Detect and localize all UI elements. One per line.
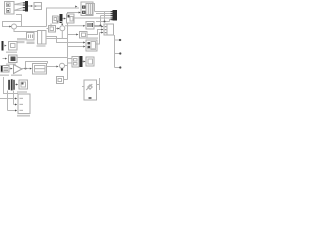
label under U13 xyxy=(87,48,96,49)
mux M2 xyxy=(60,14,63,23)
block U13 xyxy=(86,40,97,51)
wire B3 out xyxy=(47,66,57,68)
label above U13 xyxy=(86,37,98,38)
gain K1 triangle xyxy=(14,65,23,74)
arrowheads into BL xyxy=(15,98,17,112)
mux M3 xyxy=(113,10,118,21)
arrowhead into L2 xyxy=(5,58,7,60)
scope L2 xyxy=(9,55,18,63)
junction dot M3a xyxy=(104,21,106,23)
label of L2 xyxy=(6,64,16,65)
arrowhead into U2 xyxy=(31,5,33,7)
label of L1 xyxy=(6,52,17,53)
source block G0 xyxy=(1,66,9,73)
label under BL xyxy=(17,115,30,117)
block U12 xyxy=(104,24,114,35)
lookup block B3 xyxy=(33,64,47,75)
wire feedback riser xyxy=(47,8,80,27)
sum junction S3 xyxy=(60,26,65,31)
icon dot in TL1 xyxy=(7,10,9,12)
junction dot R1 xyxy=(119,39,121,41)
label boxes display xyxy=(17,38,27,43)
arrowhead into M4b xyxy=(83,61,85,63)
arrowheads into U12 xyxy=(101,26,103,34)
wire G0 to gain xyxy=(9,68,11,70)
wires into M4 block xyxy=(68,59,73,64)
wire U4 out2 xyxy=(46,38,68,40)
arrowhead into sum S2 xyxy=(56,66,58,68)
block U4 xyxy=(38,31,47,45)
block U10 xyxy=(86,22,94,30)
junction dot M3b xyxy=(100,25,102,27)
junction dot near U5 xyxy=(57,21,59,23)
arrowhead into L1 xyxy=(5,45,7,47)
label of U3 xyxy=(27,42,35,45)
arrowhead into S3 xyxy=(57,28,59,30)
wire M1 out xyxy=(28,5,31,7)
G0 dark bar xyxy=(1,66,3,72)
wire S3 down xyxy=(61,31,63,39)
wire to B4 xyxy=(64,79,68,81)
block U11 xyxy=(80,32,88,39)
subsystem BL xyxy=(18,94,30,114)
wire S1 down out xyxy=(14,29,37,32)
block U3 stripes xyxy=(27,33,35,41)
scope L2 screen xyxy=(11,57,16,62)
block L3 xyxy=(19,80,28,89)
wire left riser xyxy=(4,77,19,94)
U12 pin specks xyxy=(105,26,107,33)
block U7 xyxy=(49,26,56,33)
wire right of XY xyxy=(97,78,100,90)
label of G0 xyxy=(0,75,9,76)
label of K1 xyxy=(11,75,22,76)
sum junction S2 xyxy=(60,63,65,68)
demux D1 xyxy=(2,41,4,51)
wires into U12 xyxy=(94,27,101,45)
vertical from D2 pin b xyxy=(13,91,15,105)
block M4a xyxy=(72,57,79,68)
stubs U5 to mux M2 xyxy=(58,17,60,21)
wire branch up over B3 xyxy=(26,62,48,69)
wire TL1 to mux fan xyxy=(14,3,23,11)
BL pin labels xyxy=(20,98,24,111)
wire into U10 xyxy=(65,25,83,27)
U13 port icons xyxy=(88,42,91,48)
wire U9 out top xyxy=(93,4,95,12)
wire U12 out vertical bus xyxy=(115,35,122,68)
icon tick in U2 xyxy=(35,6,36,7)
subsystem U9 xyxy=(81,2,93,16)
junction dot R3 xyxy=(119,66,121,68)
vertical from D2 pin a xyxy=(7,91,9,111)
wire D2 to L3 xyxy=(15,84,16,86)
sum junction S1 xyxy=(12,24,17,29)
wire to S3 top xyxy=(58,22,63,24)
subsystem TL1 xyxy=(5,2,15,15)
arrowheads into U13 xyxy=(83,42,85,48)
wire into U13 lower xyxy=(68,46,84,48)
wires into mux M3 xyxy=(94,12,112,26)
wire M2 out xyxy=(63,18,65,20)
arrowhead into U10 xyxy=(83,25,85,27)
arrowhead into gain K1 xyxy=(11,68,13,70)
arrowhead into L3 xyxy=(16,84,18,86)
arrowheads at mux M1 pins xyxy=(23,2,25,11)
long vertical wire xyxy=(67,24,69,80)
block M4b xyxy=(86,57,94,66)
wire feedback TL1 bottom xyxy=(3,15,22,27)
icon speck L3 xyxy=(22,83,24,85)
stub into XY xyxy=(82,86,84,88)
junction dot R2 xyxy=(119,52,121,54)
label under U4 xyxy=(37,45,46,46)
wire U4 out1 xyxy=(46,37,83,43)
U9 port icons xyxy=(82,6,86,14)
U10 bars xyxy=(88,23,93,27)
XY pen speck xyxy=(89,97,92,99)
tick below S2 xyxy=(61,68,63,70)
label above BL xyxy=(17,91,27,92)
wire U6 out long to mux M3 xyxy=(74,17,112,19)
mux M1 xyxy=(25,1,28,12)
arrowhead into U11 xyxy=(76,34,78,36)
block U6 xyxy=(67,14,75,23)
arrowhead into U9 top xyxy=(75,6,77,8)
demux D2 xyxy=(8,79,15,90)
scope XY block xyxy=(84,80,97,100)
arrowhead into U9 bottom xyxy=(79,12,81,14)
arrowhead into sum S1 xyxy=(9,26,11,28)
wire U6 top to U9 xyxy=(68,13,80,15)
U9 port pinholes xyxy=(83,7,84,13)
wire S2 to vertical xyxy=(65,65,68,67)
mux M4 xyxy=(80,56,83,67)
wire M4 out xyxy=(83,61,84,63)
wire U11 out xyxy=(87,30,101,35)
block L1 xyxy=(9,42,18,51)
junction dot K1 out xyxy=(25,68,27,70)
arrowhead into S3 top xyxy=(61,24,63,26)
wire into U11 xyxy=(68,34,77,36)
wire K1 out xyxy=(22,68,30,70)
stub into U7 xyxy=(47,28,49,30)
arrowhead into B3 xyxy=(30,68,32,70)
icon speck U6 xyxy=(68,15,70,18)
wire into scope L2 xyxy=(3,58,6,60)
block U5 xyxy=(53,16,59,23)
G0 stripes xyxy=(4,68,9,71)
wire branch up to U5 xyxy=(50,24,52,27)
block U2 xyxy=(34,3,42,10)
wire U7 out xyxy=(56,28,58,30)
wire L2 out long xyxy=(17,57,68,59)
arrowhead into U6 xyxy=(64,18,66,20)
block B4 xyxy=(57,77,64,84)
wires into BL xyxy=(0,99,15,111)
wire S1 out right xyxy=(17,26,47,28)
